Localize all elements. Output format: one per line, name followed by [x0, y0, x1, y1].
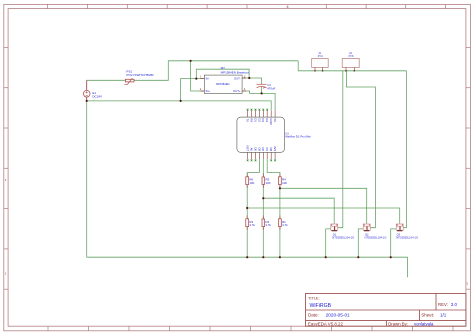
svg-text:D0: D0	[253, 148, 257, 152]
svg-text:P=6: P=6	[349, 54, 354, 58]
svg-text:D1: D1	[253, 118, 257, 122]
module U1 WeMos D1 Pro Mini	[237, 117, 285, 152]
module top pin names	[246, 118, 278, 124]
resistor R6	[246, 177, 249, 185]
wire connector rail to Q2 drain	[346, 71, 375, 228]
svg-text:3.0: 3.0	[451, 302, 458, 307]
node E1 minus	[86, 100, 88, 102]
svg-text:5V: 5V	[273, 118, 277, 122]
transistor Q1	[331, 224, 354, 240]
svg-text:4.7k: 4.7k	[249, 223, 255, 227]
svg-text:1/1: 1/1	[440, 313, 447, 318]
wire +24V rail to connectors	[298, 61, 406, 71]
svg-text:OUT+: OUT+	[233, 89, 241, 93]
resistor R4	[278, 177, 281, 185]
wire R5 to R2 column	[262, 185, 264, 219]
svg-text:Drawn By:: Drawn By:	[388, 321, 408, 326]
svg-text:470uF: 470uF	[267, 87, 275, 91]
module bottom pin names	[246, 145, 278, 151]
module bottom pins	[248, 152, 276, 159]
wire R6 node to Q3 gate	[247, 208, 400, 224]
node rail Q2	[357, 256, 359, 258]
resistor lead stubs	[247, 173, 280, 230]
svg-text:D4: D4	[265, 118, 269, 122]
svg-text:WiFiRGB: WiFiRGB	[310, 303, 332, 309]
pin 1 IN- stub	[201, 78, 205, 80]
wire E1 plus to fuse to riser	[87, 61, 299, 81]
wire R1 bottom to rail	[279, 227, 281, 258]
svg-text:100: 100	[266, 181, 271, 185]
wire Q1 source to rail	[326, 229, 331, 257]
wire D5 pin to R6	[247, 159, 259, 177]
wire R6 to R3 column	[246, 185, 248, 219]
node R6 gate tap	[246, 207, 248, 209]
title block	[306, 294, 466, 327]
wire E1 minus rail to GND pin	[87, 101, 272, 110]
pin 2 IN+ stub	[201, 90, 205, 92]
fuse PS1	[124, 78, 134, 84]
wire E1 minus down	[86, 101, 88, 257]
svg-text:100: 100	[282, 181, 287, 185]
wire connector rail to Q3 drain	[403, 71, 406, 228]
svg-text:TX: TX	[246, 118, 250, 122]
svg-text:D2: D2	[257, 118, 261, 122]
wire IN- to OUT- bridge	[196, 69, 249, 78]
node OUT- pin3	[248, 77, 250, 79]
svg-text:J1: J1	[318, 51, 321, 55]
sheet border bottom tick marks	[48, 326, 453, 331]
no-connect marks bottom pins	[247, 160, 276, 162]
sheet border left tick marks	[4, 47, 8, 289]
wire OUT- to C1 top	[242, 78, 262, 84]
svg-text:4.7k: 4.7k	[282, 223, 288, 227]
svg-text:RX: RX	[249, 118, 253, 122]
svg-text:P=4: P=4	[318, 54, 323, 58]
resistor R3	[246, 219, 249, 227]
node rail R1	[279, 256, 281, 258]
svg-text:2020-05-01: 2020-05-01	[326, 313, 350, 318]
node IN- pin1	[195, 78, 197, 80]
svg-text:NTD3055L104-1G: NTD3055L104-1G	[365, 236, 387, 240]
svg-text:100: 100	[249, 181, 254, 185]
wire R4 to R1 column	[279, 185, 281, 219]
node IN+ tap	[190, 60, 192, 62]
svg-text:Date:: Date:	[308, 313, 319, 318]
capacitor C1	[257, 84, 267, 88]
svg-text:D7: D7	[265, 148, 269, 152]
wire R4 node to Q2 gate	[280, 188, 367, 224]
node R5 gate tap	[262, 197, 264, 199]
sheet border top tick marks	[48, 4, 446, 8]
svg-text:TITLE:: TITLE:	[308, 295, 320, 300]
svg-text:4.7k: 4.7k	[266, 223, 272, 227]
connector pin junctions	[314, 70, 355, 72]
svg-text:POLYSWITCH5MM: POLYSWITCH5MM	[126, 73, 154, 77]
svg-text:RST: RST	[246, 145, 250, 151]
wire D7 pin to R4	[267, 159, 280, 177]
node IN- rail tap	[180, 100, 182, 102]
node rail R3	[246, 256, 248, 258]
pin 4 OUT+ stub	[242, 90, 246, 92]
svg-text:D6: D6	[261, 148, 265, 152]
node rail R2	[262, 256, 264, 258]
wire OUT+ to C1 bottom to 5V pin	[242, 91, 275, 110]
voltage source E1	[83, 80, 90, 101]
svg-text:MP1584EN: MP1584EN	[216, 82, 229, 86]
svg-text:DC24V: DC24V	[92, 95, 102, 99]
wire Q2 source to rail	[358, 229, 363, 257]
node rail Q1	[325, 256, 327, 258]
wire IN- to gnd rail	[181, 79, 205, 101]
transistor Q3	[396, 224, 418, 240]
wire connector rail to Q1 drain	[338, 71, 343, 228]
connector J1 pins	[315, 67, 323, 70]
node C1 bottom	[261, 92, 263, 94]
svg-text:NTD3055L104-1G: NTD3055L104-1G	[332, 236, 354, 240]
wire C1 bottom stub	[261, 87, 263, 94]
module top pins	[248, 110, 276, 117]
wire R2 bottom to rail	[262, 227, 264, 258]
svg-text:OUT-: OUT-	[234, 77, 241, 81]
no-connect marks top pins	[247, 109, 268, 111]
node rail Q3	[390, 256, 392, 258]
wire R3 bottom to rail	[246, 227, 248, 258]
wire ground rail bottom	[87, 257, 408, 277]
resistor R2	[262, 219, 265, 227]
connector J1	[312, 59, 329, 68]
pin 3 OUT- stub	[242, 77, 246, 79]
svg-text:EasyEDA V5.8.22: EasyEDA V5.8.22	[308, 321, 343, 326]
connector J2	[342, 59, 359, 68]
svg-text:IN-: IN-	[206, 77, 210, 81]
svg-text:J2: J2	[349, 51, 352, 55]
svg-text:WeMos D1 Pro Mini: WeMos D1 Pro Mini	[285, 135, 311, 139]
wire R5 node to Q1 gate	[263, 198, 334, 224]
wire D6 pin to R5	[262, 159, 264, 177]
svg-text:Sheet:: Sheet:	[421, 313, 434, 318]
svg-text:A0: A0	[249, 148, 253, 152]
connector J2 pins	[346, 67, 354, 70]
svg-text:vonlatvala: vonlatvala	[414, 321, 434, 326]
svg-text:REV:: REV:	[438, 302, 448, 307]
svg-text:D5: D5	[257, 148, 261, 152]
wire IN+ feed	[191, 61, 205, 91]
resistor R5	[262, 177, 265, 184]
svg-text:D8: D8	[269, 148, 273, 152]
resistor R1	[278, 219, 281, 227]
svg-text:MP1584EN Breakout: MP1584EN Breakout	[221, 70, 249, 74]
transistor Q2	[363, 224, 386, 240]
wire Q3 source to rail	[391, 229, 397, 257]
node R4 gate tap	[279, 187, 281, 189]
svg-text:3V3: 3V3	[273, 146, 277, 151]
svg-text:D3: D3	[261, 118, 265, 122]
svg-text:NTD3055L104-1G: NTD3055L104-1G	[396, 236, 418, 240]
sheet border right tick marks	[466, 47, 471, 289]
module M1 MP1584EN breakout	[204, 75, 242, 93]
svg-text:GND: GND	[269, 118, 273, 124]
svg-text:IN+: IN+	[206, 89, 211, 93]
